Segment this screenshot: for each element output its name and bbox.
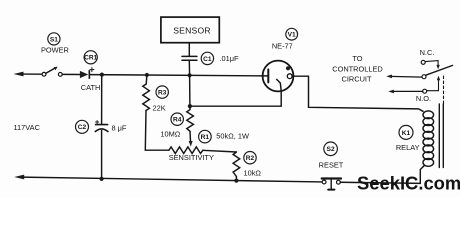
svg-text:CR1: CR1	[84, 55, 98, 62]
diode plus mark	[90, 68, 94, 72]
svg-text:10kΩ: 10kΩ	[244, 168, 262, 177]
wire C1 to rail	[188, 60, 190, 75]
capacitor C2	[96, 124, 108, 126]
wire C2 branch lower	[101, 131, 103, 179]
svg-text:.01μF: .01μF	[220, 54, 240, 63]
wire switch to diode	[62, 73, 80, 75]
switch S1 contact right	[58, 72, 62, 76]
label R3	[153, 86, 169, 112]
relay N.C. motion arrow	[425, 61, 438, 66]
svg-text:R1: R1	[201, 134, 210, 141]
label R4	[160, 113, 183, 139]
svg-text:RELAY: RELAY	[396, 143, 420, 152]
svg-text:10MΩ: 10MΩ	[160, 130, 180, 139]
resistor R2	[233, 152, 240, 177]
wire R2 to rail	[235, 177, 237, 181]
tube V1 starter electrode	[287, 74, 292, 79]
wire bottom rail right segment	[340, 182, 420, 183]
node C2 bottom junction	[100, 177, 104, 181]
wire top rail left arrow	[14, 72, 24, 77]
relay contact common	[422, 75, 426, 79]
svg-text:SeekIC.com: SeekIC.com	[357, 173, 460, 194]
wire bottom rail left segment	[22, 177, 322, 182]
node junction R3 branch	[145, 73, 149, 77]
label V1	[272, 28, 298, 50]
svg-text:117VAC: 117VAC	[14, 123, 41, 132]
tube V1 envelope	[263, 61, 294, 92]
svg-text:CATH: CATH	[81, 83, 101, 92]
relay core lines	[438, 104, 440, 168]
relay K1 coil	[423, 111, 434, 119]
pushbutton S2 bar and stem	[322, 177, 341, 179]
wire R4 wiper	[189, 131, 192, 141]
relay contact N.C.	[421, 60, 425, 64]
resistor R3	[143, 84, 150, 111]
node R4/tube junction	[188, 104, 192, 108]
wire tube bottom lead to R4 junction	[190, 79, 281, 106]
svg-text:K1: K1	[402, 130, 411, 137]
switch S1 contact left	[42, 72, 46, 76]
svg-text:NE-77: NE-77	[272, 42, 293, 51]
wire N.O. to controlled circuit arrow	[392, 90, 422, 92]
svg-text:C1: C1	[203, 56, 212, 63]
node R2 bottom junction	[234, 179, 238, 183]
node junction C2 branch	[100, 73, 104, 77]
svg-text:22K: 22K	[153, 103, 166, 112]
svg-text:SENSITIVITY: SENSITIVITY	[169, 153, 214, 162]
label S1	[41, 33, 69, 55]
potentiometer R1	[169, 147, 203, 154]
wire tube starter to relay coil	[292, 76, 423, 111]
tube V1 anode dot	[286, 66, 290, 70]
wire R3 branch top	[145, 75, 148, 84]
svg-text:CIRCUIT: CIRCUIT	[342, 75, 372, 84]
svg-text:C2: C2	[78, 124, 87, 131]
svg-text:POWER: POWER	[41, 46, 69, 55]
svg-text:N.O.: N.O.	[416, 94, 431, 103]
svg-text:R4: R4	[173, 117, 182, 124]
svg-text:CONTROLLED: CONTROLLED	[332, 64, 383, 73]
label R2	[244, 152, 262, 178]
wire coil bottom to rail	[420, 165, 424, 183]
svg-text:R2: R2	[246, 155, 255, 162]
relay contact N.O.	[423, 89, 427, 93]
resistor R4	[187, 106, 194, 131]
label CR1	[81, 51, 101, 92]
svg-text:TO: TO	[352, 54, 362, 63]
wire R4 branch top	[189, 75, 191, 106]
wire common to controlled circuit arrow	[390, 75, 422, 78]
switch S1 blade	[46, 68, 56, 73]
svg-text:SENSOR: SENSOR	[173, 26, 211, 36]
svg-text:8 μF: 8 μF	[112, 124, 127, 133]
tube V1 cathode bar	[267, 69, 269, 82]
diode CR1	[80, 71, 88, 78]
wire pot to R2	[203, 150, 237, 152]
svg-text:R3: R3	[158, 90, 167, 97]
wire bottom rail left arrow	[14, 175, 24, 180]
label R1	[169, 130, 249, 162]
label S2	[319, 142, 344, 170]
svg-text:S2: S2	[327, 146, 335, 153]
relay blade	[426, 65, 453, 75]
pushbutton S2 contact left	[322, 180, 326, 184]
wire sensor to C1	[188, 43, 190, 57]
wire R3 to pot	[145, 111, 169, 151]
node junction C1/R4 branch	[188, 73, 192, 77]
relay N.O. motion arrow	[427, 80, 439, 91]
label C1	[201, 52, 239, 64]
pushbutton S2 contact right	[337, 180, 341, 184]
wire top rail: arrow to switch S1	[21, 73, 42, 75]
capacitor C1	[182, 55, 197, 57]
sensor box	[161, 17, 219, 43]
svg-text:50kΩ, 1W: 50kΩ, 1W	[216, 131, 249, 140]
svg-text:N.C.: N.C.	[420, 48, 435, 57]
wire top rail: diode to tube cathode	[90, 75, 268, 76]
relay armature dashed link	[443, 76, 445, 104]
wire C2 branch upper	[101, 75, 103, 125]
label K1	[396, 125, 420, 152]
svg-text:V1: V1	[288, 32, 296, 39]
svg-text:RESET: RESET	[319, 161, 344, 170]
svg-text:S1: S1	[50, 36, 58, 43]
label C2	[76, 120, 127, 133]
